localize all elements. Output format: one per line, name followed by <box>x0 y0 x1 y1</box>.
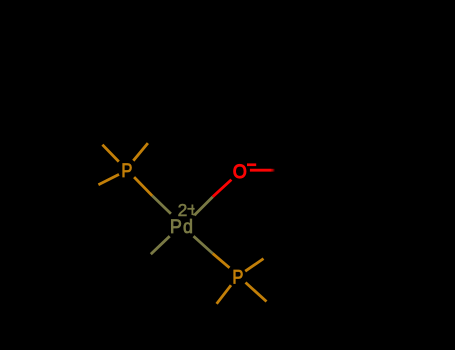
bond Pd-O (Pd half) <box>194 197 213 216</box>
bond Pd-P2 (P half) <box>213 254 230 268</box>
bond O-phenyl fading tip <box>271 169 275 172</box>
bond O-phenyl (O half, phenyl invisible) <box>250 169 271 172</box>
bond P1-CH3 (up-right methyl) <box>133 143 148 161</box>
bond P2-CH3 (up-right methyl) <box>245 259 263 272</box>
bond P1-Pd (Pd half) <box>152 196 171 214</box>
bond P1-CH3 (up-left methyl) <box>102 145 118 162</box>
svg-text:O: O <box>233 160 247 182</box>
bond P1-CH3 (left methyl) <box>98 174 119 184</box>
bond P2-CH3 (down-left methyl) <box>217 285 231 304</box>
bond Pd-P2 (Pd half) <box>194 236 213 253</box>
svg-text:P: P <box>232 267 243 288</box>
bond Pd-CH3 (down-left methyl, Pd half) <box>151 236 170 254</box>
charge plus vertical bar <box>192 205 194 216</box>
bond P1-Pd (P half) <box>134 177 152 196</box>
charge glyph foot serif <box>193 214 197 216</box>
bond Pd-O (O half) <box>213 180 232 197</box>
charge minus on O <box>247 163 256 166</box>
charge plus horizontal bar <box>187 208 194 210</box>
bond P2-CH3 (down-right methyl) <box>246 283 267 302</box>
svg-text:P: P <box>121 160 132 181</box>
svg-text:2: 2 <box>178 200 188 220</box>
